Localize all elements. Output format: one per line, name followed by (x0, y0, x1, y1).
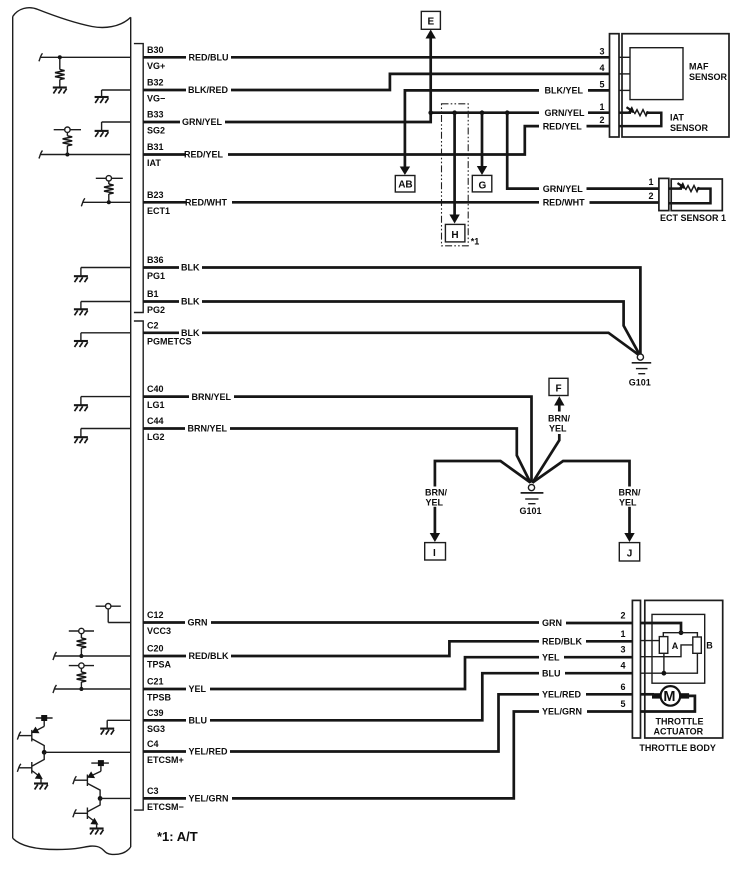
pin B23 label (147, 190, 170, 216)
wire BRN/YEL to connector J (533, 461, 641, 542)
svg-text:BRN/YEL: BRN/YEL (188, 424, 228, 434)
ground B32 (95, 97, 109, 103)
connector box I (425, 543, 446, 560)
svg-text:B30: B30 (147, 45, 164, 55)
svg-text:H: H (451, 230, 458, 241)
wire GRN/YEL bus to IAT pin 1 (431, 108, 610, 118)
connector box H (445, 224, 465, 242)
wire B30 RED/BLU to MAF pin 3 (143, 53, 609, 63)
connector rail C (pins C2-C3) (134, 321, 143, 810)
ECM internals: SG3 ground (100, 720, 131, 734)
throttle connector bar (632, 600, 640, 738)
wire B36 BLK to G101 (143, 263, 640, 354)
svg-text:BRN/: BRN/ (425, 488, 447, 498)
resistor B (693, 637, 702, 653)
svg-text:G101: G101 (520, 506, 542, 516)
wire B33 internal (102, 121, 131, 123)
ECM internals: driver transistors for ETCSM- (73, 760, 131, 834)
wire to connector E (426, 30, 436, 113)
svg-text:LG2: LG2 (147, 432, 165, 442)
pin C20 label (147, 644, 172, 670)
ECM internals: driver transistors for ETCSM+ (17, 715, 130, 790)
svg-text:C20: C20 (147, 644, 164, 654)
svg-text:5: 5 (599, 80, 604, 90)
ground G101 (engine ground) (629, 354, 651, 388)
svg-text:2: 2 (620, 611, 625, 621)
svg-text:THROTTLE: THROTTLE (656, 716, 704, 726)
svg-text:C3: C3 (147, 786, 159, 796)
svg-text:RED/WHT: RED/WHT (185, 198, 227, 208)
ground B1 (74, 309, 88, 315)
svg-text:M: M (663, 689, 675, 705)
svg-text:I: I (433, 548, 436, 559)
svg-text:BLK/RED: BLK/RED (188, 85, 228, 95)
supply bar B31 (54, 129, 81, 131)
ground C44 (74, 437, 88, 443)
svg-text:THROTTLE BODY: THROTTLE BODY (639, 743, 716, 753)
ground C40 (74, 405, 88, 411)
throttle body assembly (620, 600, 722, 753)
svg-text:ECT1: ECT1 (147, 206, 170, 216)
svg-text:PG1: PG1 (147, 271, 165, 281)
svg-text:IAT: IAT (670, 113, 684, 123)
throttle position sensor box (652, 614, 705, 683)
ECM top torn edge (13, 8, 131, 28)
svg-text:A: A (672, 641, 679, 651)
svg-text:BLK: BLK (181, 297, 200, 307)
ECM internals: B30 pull-up network (39, 53, 131, 93)
wire B1 BLK to G101 (143, 297, 640, 356)
ECM internals: C44 ground (74, 429, 131, 444)
svg-text:B31: B31 (147, 142, 164, 152)
svg-text:MAF: MAF (689, 62, 709, 72)
svg-text:ETCSM−: ETCSM− (147, 802, 184, 812)
svg-text:RED/BLU: RED/BLU (189, 53, 229, 63)
wire C3 internal (100, 797, 131, 799)
svg-text:RED/WHT: RED/WHT (543, 198, 585, 208)
pin B36 label (147, 255, 165, 281)
svg-text:AB: AB (398, 180, 412, 191)
ECM right edge (130, 17, 132, 847)
svg-text:4: 4 (599, 63, 604, 73)
svg-text:2: 2 (599, 115, 604, 125)
wire C4 internal (44, 751, 131, 753)
wire pin 6 to motor (641, 693, 655, 696)
node GRN/YEL at E branch (428, 110, 433, 115)
wire pin 4 bottom rail (641, 653, 698, 673)
svg-text:SENSOR: SENSOR (670, 123, 709, 133)
svg-text:BLK: BLK (181, 263, 200, 273)
ground B36 (74, 276, 88, 282)
svg-text:YEL/GRN: YEL/GRN (189, 794, 229, 804)
wire B31 internal (41, 154, 131, 156)
svg-text:RED/BLK: RED/BLK (189, 651, 229, 661)
supply bar B23 (96, 177, 123, 179)
svg-text:*1: *1 (471, 237, 480, 247)
node TPS bottom rail (662, 671, 667, 676)
wire C4 YEL/RED to throttle pin 6 (143, 690, 632, 757)
ground C2 (74, 341, 88, 347)
wire B33 GRN/YEL to junction (143, 113, 431, 128)
pin B31 label (147, 142, 164, 168)
svg-text:4: 4 (620, 661, 625, 671)
resistor A (659, 637, 668, 654)
ECM internals: B32 ground (95, 90, 131, 103)
svg-text:BLU: BLU (189, 716, 208, 726)
wire motor to pin 5 (641, 696, 695, 712)
svg-text:SG2: SG2 (147, 126, 165, 136)
pin C4 label (147, 739, 184, 765)
wire GRN/YEL branch to ECT sensor pin 1 (507, 113, 659, 194)
svg-text:YEL: YEL (189, 684, 207, 694)
svg-text:C44: C44 (147, 416, 164, 426)
riser resistor A bottom (663, 653, 665, 673)
dash-dot A/T option box (442, 104, 469, 246)
wire C39 BLU to throttle pin 4 (143, 668, 632, 725)
node GRN/YEL at G branch (480, 110, 485, 115)
node TPS top rail (679, 630, 684, 635)
svg-text:LG1: LG1 (147, 400, 165, 410)
pin C39 label (147, 708, 165, 734)
wire C3 YEL/GRN to throttle pin 5 (143, 707, 632, 804)
pin C2 label (147, 320, 192, 346)
svg-text:1: 1 (620, 629, 625, 639)
svg-text:YEL: YEL (542, 652, 560, 662)
svg-text:IAT: IAT (147, 158, 161, 168)
svg-text:C4: C4 (147, 739, 159, 749)
supply terminal Q3 (91, 762, 109, 764)
ECM internals: B31 pull-up to supply (39, 127, 131, 159)
wire pin 3 wiper (641, 645, 693, 657)
wire B32 internal (102, 89, 131, 91)
ground Q4 (90, 829, 104, 835)
svg-text:TPSA: TPSA (147, 660, 172, 670)
transistor Q3 (PNP) (86, 775, 88, 787)
svg-text:C40: C40 (147, 384, 164, 394)
svg-text:6: 6 (620, 682, 625, 692)
pin B30 label (147, 45, 165, 71)
svg-text:E: E (428, 17, 435, 28)
svg-text:1: 1 (648, 177, 653, 187)
ECT sensor 1 assembly (648, 177, 726, 223)
svg-text:BLU: BLU (542, 668, 561, 678)
ECT thermistor element (669, 187, 682, 190)
svg-text:5: 5 (620, 699, 625, 709)
svg-text:YEL: YEL (619, 498, 637, 508)
ECM internals: C20 pull-up (53, 628, 131, 660)
wire pin 1 to resistor A (641, 640, 660, 642)
pin C21 label (147, 677, 172, 703)
svg-text:SG3: SG3 (147, 724, 165, 734)
svg-text:B: B (706, 640, 713, 650)
svg-text:BRN/: BRN/ (548, 414, 570, 424)
pin C3 label (147, 786, 184, 812)
ECM bottom torn edge (13, 838, 131, 854)
ECM internals: C12 supply tap (96, 604, 131, 623)
connector box AB (395, 176, 415, 193)
node GRN/YEL at H branch (452, 110, 457, 115)
connector box G (472, 175, 492, 192)
wire C44 BRN/YEL to G101 (143, 424, 530, 483)
ECM internals: C40 ground (74, 397, 131, 412)
ECM internals: B36 ground (74, 268, 131, 283)
svg-text:G: G (479, 180, 487, 191)
ground SG3 (100, 729, 114, 735)
connector box F (549, 378, 568, 395)
wire C20 RED/BLK to throttle pin 1 (143, 637, 632, 662)
transistor Q4 (NPN) (87, 798, 100, 811)
svg-text:YEL/RED: YEL/RED (542, 690, 582, 700)
pin C44 label (147, 416, 165, 442)
wire C2 BLK to G101 (143, 328, 640, 356)
node C4 (42, 750, 47, 755)
svg-text:VG−: VG− (147, 94, 165, 104)
resistor C20 (77, 638, 87, 648)
svg-text:TPSB: TPSB (147, 693, 172, 703)
svg-text:BRN/: BRN/ (619, 488, 641, 498)
svg-text:J: J (627, 549, 633, 560)
resistor B23 (104, 184, 114, 194)
svg-text:VCC3: VCC3 (147, 626, 171, 636)
ECM internals: C21 pull-up (53, 663, 131, 693)
ECT connector bar (659, 178, 669, 210)
wire B23 internal (83, 201, 131, 203)
svg-text:GRN: GRN (188, 618, 208, 628)
ECM internals: B1 ground (74, 302, 131, 316)
pin 5 stub (619, 89, 630, 91)
arrow into AB (400, 167, 410, 176)
ECM control module boundary (13, 8, 131, 855)
svg-text:GRN/YEL: GRN/YEL (545, 108, 586, 118)
ECM left edge (12, 17, 14, 839)
IAT thermistor element (619, 111, 631, 114)
svg-text:C2: C2 (147, 320, 159, 330)
svg-text:B23: B23 (147, 190, 164, 200)
svg-text:BLK/YEL: BLK/YEL (545, 86, 584, 96)
wire pin 2 to sensor rail (641, 623, 682, 631)
svg-text:SENSOR: SENSOR (689, 72, 728, 82)
svg-text:BRN/YEL: BRN/YEL (192, 392, 232, 402)
throttle body outer box (645, 600, 723, 738)
wire to connector G (477, 113, 487, 175)
svg-text:B36: B36 (147, 255, 164, 265)
pin C12 label (147, 610, 171, 636)
connector rail B (pins B30-B1) (134, 44, 143, 313)
svg-text:3: 3 (599, 46, 604, 56)
svg-text:RED/YEL: RED/YEL (543, 121, 583, 131)
resistor B31 (63, 136, 73, 146)
wire BRN/YEL to connector F (532, 396, 570, 483)
svg-text:C21: C21 (147, 677, 164, 687)
ECT sensor outer box (671, 179, 722, 211)
pin B33 label (147, 110, 165, 136)
TPS top rail (663, 633, 697, 637)
svg-text:B1: B1 (147, 289, 159, 299)
pin 3 stub (619, 56, 630, 58)
svg-text:1: 1 (599, 102, 604, 112)
ECM internals: B33 ground (95, 122, 131, 137)
svg-text:3: 3 (620, 645, 625, 655)
svg-text:B32: B32 (147, 78, 164, 88)
svg-text:YEL: YEL (426, 498, 444, 508)
node on B30 (58, 55, 62, 59)
svg-text:VG+: VG+ (147, 61, 165, 71)
resistor B30 (59, 57, 61, 69)
pin C40 label (147, 384, 165, 410)
wire B31 RED/YEL from IAT pin 2 (143, 121, 609, 159)
svg-text:YEL/RED: YEL/RED (189, 747, 229, 757)
svg-text:RED/BLK: RED/BLK (542, 637, 582, 647)
MAF sensor outer box (622, 34, 729, 137)
ground G101 (second) (520, 485, 544, 517)
pin B1 label (147, 289, 165, 315)
ground Q2 (34, 784, 48, 790)
ECM internals: B23 pull-up to supply (81, 176, 130, 207)
svg-text:GRN: GRN (542, 618, 562, 628)
wire B30 internal (41, 56, 131, 58)
svg-text:C12: C12 (147, 610, 164, 620)
ground B33 (95, 131, 109, 137)
connector box E (421, 11, 440, 29)
svg-text:GRN/YEL: GRN/YEL (543, 184, 584, 194)
resistor C21 (77, 672, 87, 682)
wire to connector H (A/T) (449, 113, 459, 224)
pin 4 stub (619, 73, 630, 75)
svg-text:GRN/YEL: GRN/YEL (182, 117, 223, 127)
wire BRN/YEL to connector I (425, 461, 530, 542)
ground B30 (53, 88, 67, 94)
supply terminal Q1 (36, 717, 53, 719)
svg-text:RED/YEL: RED/YEL (184, 150, 224, 160)
wire C21 YEL to throttle pin 3 (143, 652, 632, 694)
node GRN/YEL at ECT branch (505, 110, 510, 115)
connector box J (619, 543, 639, 561)
svg-text:G101: G101 (629, 378, 651, 388)
pin B32 label (147, 78, 165, 104)
svg-text:YEL: YEL (549, 424, 567, 434)
wire B23 RED/WHT to ECT sensor pin 2 (143, 198, 659, 208)
throttle motor M (661, 686, 681, 706)
wire C40 BRN/YEL to G101 (143, 392, 531, 482)
ECM internals: C2 ground (74, 333, 131, 347)
wire C12 GRN to throttle pin 2 (143, 618, 632, 629)
node C3 (98, 796, 103, 801)
svg-text:2: 2 (648, 191, 653, 201)
svg-text:C39: C39 (147, 708, 164, 718)
svg-text:B33: B33 (147, 110, 164, 120)
svg-text:ACTUATOR: ACTUATOR (654, 726, 704, 736)
wire BLK/YEL from connector AB to MAF pin 5 (400, 86, 610, 175)
svg-text:*1: A/T: *1: A/T (157, 829, 198, 844)
MAF connector bar (610, 34, 620, 137)
wire B32 BLK/RED to MAF pin 4 (143, 74, 609, 95)
svg-text:YEL/GRN: YEL/GRN (542, 707, 582, 717)
transistor Q1 (PNP) (31, 730, 33, 742)
svg-text:F: F (556, 383, 562, 394)
svg-text:ECT SENSOR 1: ECT SENSOR 1 (660, 213, 726, 223)
MAF sensor assembly (599, 34, 729, 137)
svg-text:PG2: PG2 (147, 305, 165, 315)
svg-text:BLK: BLK (181, 328, 200, 338)
svg-text:ETCSM+: ETCSM+ (147, 755, 184, 765)
transistor Q2 (NPN) (32, 752, 44, 766)
MAF element box (630, 48, 683, 100)
